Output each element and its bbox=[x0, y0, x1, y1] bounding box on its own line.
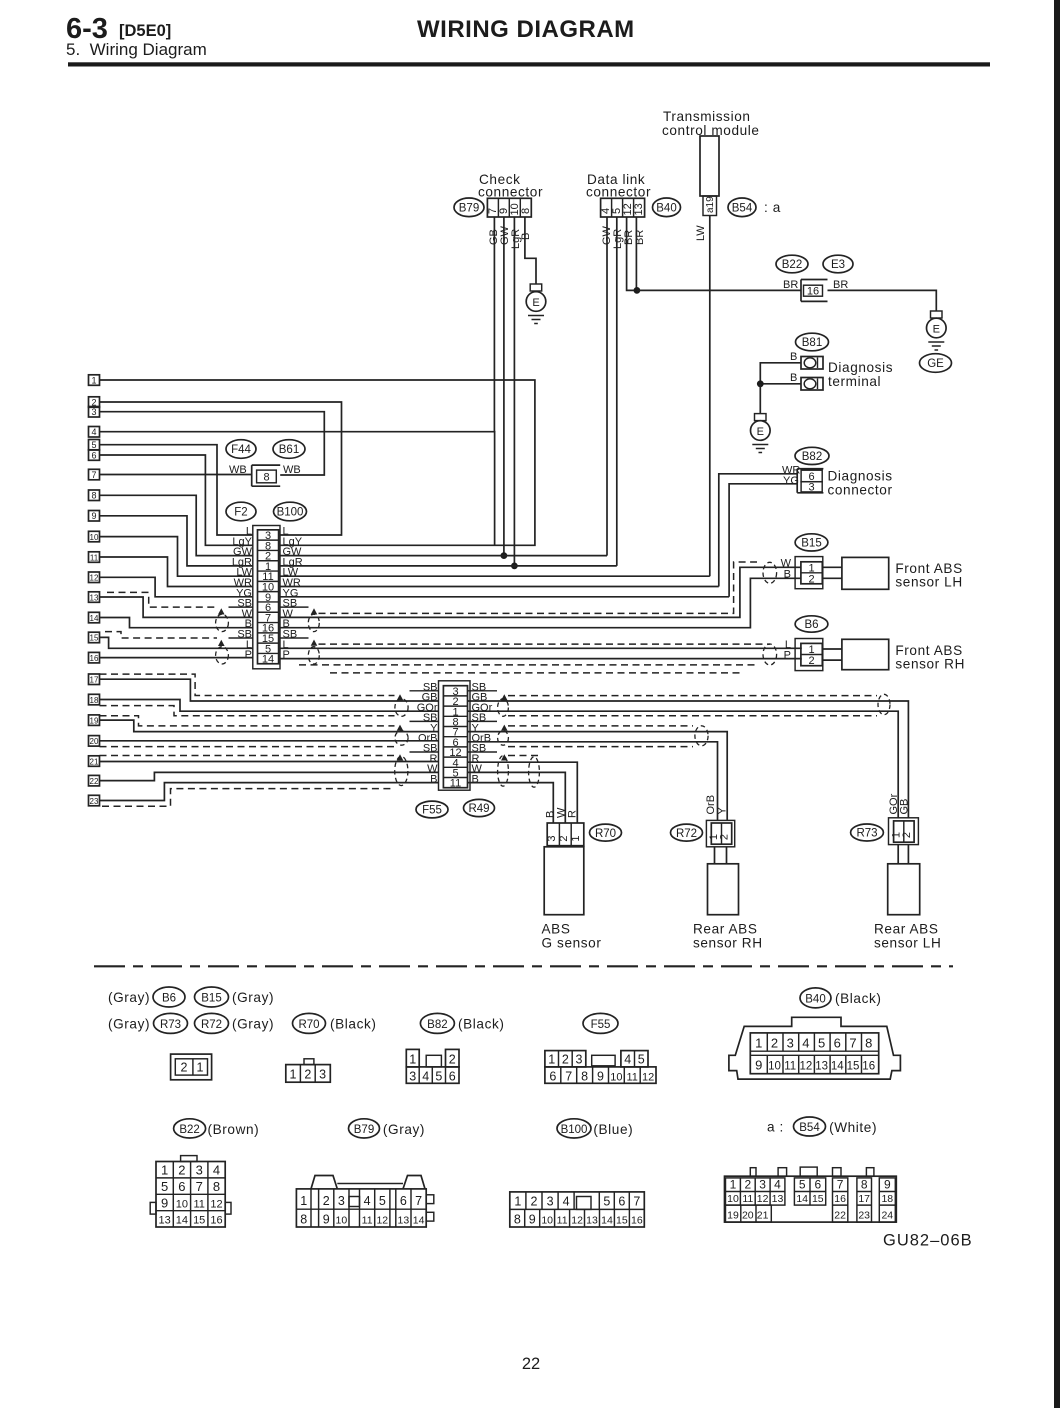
svg-text:5: 5 bbox=[799, 1178, 806, 1192]
svg-text:9: 9 bbox=[755, 1058, 762, 1073]
svg-text:R70: R70 bbox=[298, 1019, 319, 1031]
row WR right side to B82 bbox=[280, 586, 719, 588]
terminal box 4 bbox=[89, 427, 100, 438]
svg-text:11: 11 bbox=[90, 553, 99, 562]
svg-text:11: 11 bbox=[557, 1214, 568, 1226]
svg-text:12: 12 bbox=[376, 1214, 388, 1226]
wire box14 to row B left bbox=[100, 618, 253, 628]
svg-text:2: 2 bbox=[558, 835, 570, 841]
svg-text:19: 19 bbox=[90, 716, 99, 725]
shield dashed above GB right bbox=[508, 695, 877, 697]
svg-text:a :: a : bbox=[767, 1120, 784, 1135]
svg-text:10: 10 bbox=[727, 1193, 739, 1205]
svg-text:Rear ABS: Rear ABS bbox=[874, 922, 939, 937]
svg-text:13: 13 bbox=[586, 1214, 598, 1226]
connector key B79 bbox=[349, 1119, 380, 1138]
R73 pin cells 1 2 bbox=[894, 821, 915, 842]
svg-text:10: 10 bbox=[541, 1214, 553, 1226]
svg-text:12: 12 bbox=[210, 1198, 222, 1210]
wire WR from B82 to row WR bbox=[719, 474, 797, 587]
svg-text:10: 10 bbox=[768, 1061, 781, 1073]
wire BR to ground bbox=[828, 290, 937, 311]
svg-text:(Gray): (Gray) bbox=[232, 1017, 274, 1032]
svg-text:14: 14 bbox=[601, 1214, 613, 1226]
svg-text:9: 9 bbox=[884, 1178, 891, 1192]
svg-text:2: 2 bbox=[181, 1061, 188, 1075]
row SB12 left stub bbox=[410, 751, 439, 753]
wire LgR data link down to row LgR bbox=[616, 217, 618, 566]
svg-text:1: 1 bbox=[91, 375, 96, 385]
svg-text:5: 5 bbox=[603, 1194, 610, 1208]
wires B15 to sensor bbox=[823, 567, 842, 578]
shield twisted pair ellipse left 1 bbox=[216, 614, 229, 631]
wire box2 to row L right side bbox=[100, 402, 342, 535]
component rear ABS sensor RH box bbox=[708, 864, 739, 915]
wire BR pin 13 bbox=[635, 217, 637, 290]
wire terminal 1 to junction bbox=[760, 363, 801, 384]
terminal box 14 bbox=[89, 612, 100, 623]
pinout 2-pin gray connectors bbox=[171, 1054, 212, 1080]
svg-text:13: 13 bbox=[633, 203, 645, 215]
pinout F55 bbox=[545, 1051, 586, 1067]
svg-text:B15: B15 bbox=[801, 538, 821, 550]
junction BR bbox=[634, 287, 641, 294]
shield twisted pair ellipse R70 bbox=[529, 757, 540, 787]
row LgR right side bbox=[280, 565, 617, 567]
svg-text:R49: R49 bbox=[468, 803, 489, 815]
svg-text:2: 2 bbox=[809, 573, 815, 585]
wire GB from check pin 7 down joining box4 line bbox=[493, 217, 495, 432]
connector key B82 bbox=[420, 1013, 454, 1033]
shield ellipse R72 pair bbox=[695, 726, 708, 746]
terminal box 6 bbox=[89, 450, 100, 461]
svg-text:(Gray): (Gray) bbox=[108, 1017, 150, 1032]
svg-text:4: 4 bbox=[91, 427, 96, 437]
svg-text:16: 16 bbox=[834, 1193, 846, 1205]
shield arrow Y left bbox=[397, 725, 404, 731]
pinout B54 group 4 bbox=[857, 1178, 872, 1222]
B6 connector outer box bbox=[795, 639, 823, 671]
svg-text:10: 10 bbox=[610, 1071, 622, 1083]
shield dashed above R bbox=[100, 755, 395, 757]
pinout B40 pin grid bbox=[750, 1033, 878, 1074]
svg-text:B40: B40 bbox=[805, 993, 825, 1005]
shield arrow R right bbox=[501, 754, 508, 760]
junction B bbox=[757, 380, 764, 387]
svg-text:8: 8 bbox=[865, 1036, 872, 1051]
wire box22 to row W left bbox=[100, 772, 439, 780]
shield arrow GB left bbox=[397, 694, 404, 700]
svg-text:16: 16 bbox=[90, 654, 99, 663]
component front ABS sensor LH box bbox=[842, 557, 889, 589]
svg-text:14: 14 bbox=[262, 654, 274, 666]
shield dashed below P bbox=[299, 664, 759, 666]
shield twisted pair ellipse right B bbox=[498, 731, 509, 745]
wire box23 to row B left bbox=[100, 783, 439, 801]
svg-text:2: 2 bbox=[719, 834, 731, 840]
svg-text:GU82–06B: GU82–06B bbox=[883, 1232, 973, 1250]
svg-text:B22: B22 bbox=[782, 259, 802, 271]
svg-text:(Brown): (Brown) bbox=[208, 1122, 260, 1137]
shield dashed box19 bbox=[100, 716, 395, 726]
svg-text:8: 8 bbox=[514, 1212, 521, 1226]
svg-text:12: 12 bbox=[757, 1193, 769, 1205]
row Y right to R72 bbox=[468, 732, 728, 821]
svg-text:8: 8 bbox=[581, 1069, 588, 1083]
svg-text:OrB: OrB bbox=[705, 795, 717, 815]
svg-text:7: 7 bbox=[415, 1194, 422, 1208]
connector B22 bbox=[776, 255, 808, 273]
svg-text:1: 1 bbox=[755, 1036, 762, 1051]
row SB8 right stub bbox=[468, 720, 498, 722]
connector key F55 bbox=[583, 1013, 618, 1033]
svg-text:[D5E0]: [D5E0] bbox=[119, 22, 171, 40]
svg-text:R: R bbox=[567, 810, 579, 818]
B15 connector outer box bbox=[795, 557, 823, 589]
pinout B22 grid bbox=[156, 1162, 225, 1228]
svg-text:5: 5 bbox=[435, 1069, 442, 1083]
connector key R72 bbox=[195, 1013, 229, 1033]
svg-text:2: 2 bbox=[744, 1178, 751, 1192]
shield twisted pair ellipse left A bbox=[395, 699, 408, 717]
terminal box 20 bbox=[89, 736, 100, 747]
pinout B22 top tab bbox=[181, 1156, 197, 1162]
svg-text:4: 4 bbox=[802, 1036, 809, 1051]
svg-text:B: B bbox=[784, 568, 791, 580]
shield arrow Y right bbox=[501, 725, 508, 731]
svg-text:22: 22 bbox=[834, 1209, 846, 1221]
svg-text:11: 11 bbox=[784, 1061, 796, 1073]
svg-text:8: 8 bbox=[520, 208, 532, 214]
svg-text:(White): (White) bbox=[829, 1120, 877, 1135]
row YG right side to B82 bbox=[280, 596, 729, 598]
svg-text:E: E bbox=[532, 297, 539, 309]
pinout B40 body bbox=[729, 1017, 901, 1079]
connector B6 bbox=[795, 616, 828, 632]
svg-text:3: 3 bbox=[759, 1178, 766, 1192]
svg-text:8: 8 bbox=[263, 472, 269, 484]
svg-text:21: 21 bbox=[90, 757, 99, 766]
svg-text:14: 14 bbox=[90, 614, 99, 623]
svg-text:8: 8 bbox=[300, 1212, 307, 1226]
svg-text:B54: B54 bbox=[732, 203, 753, 215]
pinout R70 bbox=[304, 1059, 314, 1065]
wire box1 to row LgY right side bbox=[100, 380, 535, 545]
svg-text:1: 1 bbox=[161, 1163, 168, 1178]
svg-text:18: 18 bbox=[90, 696, 99, 705]
svg-text:12: 12 bbox=[642, 1071, 654, 1083]
shield arrow SB left bbox=[218, 608, 225, 614]
row B right to R70 bbox=[468, 783, 554, 823]
svg-text:11: 11 bbox=[626, 1071, 637, 1083]
wire box18 to row GOr left bbox=[100, 700, 439, 712]
svg-text:10: 10 bbox=[336, 1214, 348, 1226]
svg-text:5: 5 bbox=[91, 440, 96, 450]
svg-text:2: 2 bbox=[531, 1194, 538, 1208]
wire terminal 2 to junction bbox=[760, 383, 801, 385]
svg-text:3: 3 bbox=[196, 1163, 203, 1178]
svg-text:B6: B6 bbox=[804, 619, 818, 631]
shield ellipse R73 pair bbox=[878, 694, 890, 714]
connector key B100 bbox=[557, 1119, 591, 1138]
pinout B82 bbox=[406, 1049, 419, 1067]
terminal box 11 bbox=[89, 552, 100, 563]
terminal box 18 bbox=[89, 694, 100, 705]
shield twisted pair ellipse left B bbox=[395, 731, 408, 745]
svg-text:6: 6 bbox=[814, 1178, 821, 1192]
svg-text:sensor LH: sensor LH bbox=[895, 575, 962, 590]
shield arrow R left bbox=[397, 754, 404, 760]
svg-text:E: E bbox=[757, 426, 764, 438]
wire box7 WB to joint connector 8 left bbox=[100, 474, 252, 476]
shield dashed box17 bbox=[100, 674, 395, 695]
svg-text:23: 23 bbox=[858, 1209, 870, 1221]
svg-text:Diagnosis: Diagnosis bbox=[828, 469, 893, 484]
svg-text:Transmission: Transmission bbox=[663, 109, 751, 124]
svg-text:9: 9 bbox=[597, 1069, 604, 1083]
svg-text:4: 4 bbox=[364, 1194, 371, 1208]
svg-text:21: 21 bbox=[757, 1209, 769, 1221]
connector B100 bbox=[274, 502, 307, 521]
wire BR to joint connector 16 bbox=[637, 289, 801, 291]
svg-text:5: 5 bbox=[161, 1179, 168, 1194]
connector F2 bbox=[226, 502, 256, 521]
connector F55 bbox=[416, 801, 448, 818]
svg-text:B82: B82 bbox=[427, 1019, 447, 1031]
svg-text:B40: B40 bbox=[656, 203, 676, 215]
row LW right side to TCM wire bbox=[280, 575, 710, 577]
svg-text:B: B bbox=[472, 773, 479, 785]
svg-text:3: 3 bbox=[319, 1068, 326, 1082]
svg-text:(Blue): (Blue) bbox=[593, 1122, 633, 1137]
svg-text:15: 15 bbox=[90, 634, 99, 643]
svg-text:16: 16 bbox=[807, 286, 819, 298]
svg-text:8: 8 bbox=[861, 1178, 868, 1192]
wire box21 to row R left bbox=[100, 761, 439, 763]
pinout B22 side tabs bbox=[150, 1202, 156, 1214]
shield drain dashed to row SB2 left bbox=[105, 632, 217, 638]
svg-text:(Black): (Black) bbox=[330, 1017, 377, 1032]
section divider dash-dot line bbox=[94, 965, 953, 967]
svg-text:15: 15 bbox=[847, 1061, 860, 1073]
svg-text:10: 10 bbox=[176, 1198, 188, 1210]
svg-text:11: 11 bbox=[362, 1214, 373, 1226]
ground E check connector bbox=[530, 284, 542, 291]
terminal box 10 bbox=[89, 531, 100, 542]
svg-text:13: 13 bbox=[772, 1193, 784, 1205]
svg-text:5: 5 bbox=[638, 1052, 645, 1066]
shield arrow right SB2 bbox=[311, 640, 318, 646]
svg-text:(Black): (Black) bbox=[458, 1017, 505, 1032]
component rear ABS sensor LH box bbox=[888, 864, 920, 915]
svg-text:13: 13 bbox=[398, 1214, 410, 1226]
terminal box 15 bbox=[89, 632, 100, 643]
svg-text:4: 4 bbox=[563, 1194, 570, 1208]
row W right to R70 bbox=[468, 772, 566, 823]
joint connector 16 bbox=[801, 280, 828, 302]
terminal box 5 bbox=[89, 440, 100, 451]
wire B from check pin 8 to ground bbox=[525, 217, 536, 284]
wire box10 to row LW left bbox=[100, 537, 253, 577]
wires R73 to sensor bbox=[898, 845, 908, 864]
wire junction to ground bbox=[759, 384, 761, 414]
row R right to R70 bbox=[468, 762, 578, 823]
svg-text:F55: F55 bbox=[591, 1019, 611, 1031]
connector B81 bbox=[796, 333, 829, 351]
svg-text:2: 2 bbox=[178, 1163, 185, 1178]
svg-text:P: P bbox=[784, 649, 791, 661]
svg-text:connector: connector bbox=[828, 483, 893, 498]
terminal box 22 bbox=[89, 775, 100, 786]
svg-text:2: 2 bbox=[562, 1052, 569, 1066]
svg-text:12: 12 bbox=[90, 574, 99, 583]
svg-text:B: B bbox=[520, 233, 532, 240]
svg-text:B79: B79 bbox=[459, 203, 479, 215]
wire box9 to row LgR left bbox=[100, 516, 253, 566]
svg-text:(Gray): (Gray) bbox=[232, 990, 274, 1005]
row GB right to R73 bbox=[468, 701, 909, 818]
F55 left wire labels bbox=[417, 682, 438, 786]
svg-text:12: 12 bbox=[800, 1061, 813, 1073]
terminal box 21 bbox=[89, 756, 100, 767]
TCM connector pin a19 bbox=[703, 196, 717, 216]
svg-text:15: 15 bbox=[193, 1215, 205, 1227]
connector B15 bbox=[795, 534, 828, 551]
B15 pin cells 1 2 bbox=[801, 562, 822, 584]
pinout B54 group 3 bbox=[833, 1178, 848, 1222]
wire box16 to row P left bbox=[100, 657, 253, 659]
terminal box 7 bbox=[89, 469, 100, 480]
wire box20 to row OrB left bbox=[100, 740, 439, 742]
svg-text:4: 4 bbox=[624, 1052, 631, 1066]
svg-text:BR: BR bbox=[783, 279, 798, 291]
svg-text:connector: connector bbox=[478, 185, 543, 200]
terminal box 19 bbox=[89, 715, 100, 726]
svg-text:7: 7 bbox=[633, 1194, 640, 1208]
row SB right stub bbox=[280, 606, 309, 608]
svg-text:R73: R73 bbox=[856, 828, 877, 840]
B100 right wire labels bbox=[283, 526, 303, 662]
svg-text:6: 6 bbox=[178, 1179, 185, 1194]
data link connector pin cells 4 5 12 13 bbox=[601, 198, 645, 217]
wire box12 to row YG left bbox=[100, 577, 253, 597]
connector key R70 bbox=[293, 1013, 326, 1033]
svg-text:1: 1 bbox=[570, 835, 582, 841]
svg-text:10: 10 bbox=[90, 533, 99, 542]
svg-text:B79: B79 bbox=[354, 1124, 374, 1136]
component front ABS sensor RH box bbox=[842, 639, 889, 669]
svg-text:B22: B22 bbox=[179, 1124, 199, 1136]
transmission control module U-TCM body bbox=[700, 136, 719, 196]
shield dashed box23 bbox=[102, 789, 395, 807]
svg-text:Y: Y bbox=[717, 807, 729, 815]
F55/R49 connector outer box bbox=[439, 681, 471, 790]
svg-text:B61: B61 bbox=[279, 444, 299, 456]
svg-text:6: 6 bbox=[91, 450, 96, 460]
svg-text:Rear ABS: Rear ABS bbox=[693, 922, 758, 937]
F55/R49 pin column cells bbox=[443, 686, 467, 788]
shield dashed L/P pair to B6 bbox=[319, 643, 771, 645]
shield dashed return bbox=[330, 672, 741, 674]
svg-text:B100: B100 bbox=[277, 507, 304, 519]
svg-text:23: 23 bbox=[90, 797, 99, 806]
svg-text:18: 18 bbox=[881, 1193, 893, 1205]
svg-text:R70: R70 bbox=[595, 828, 616, 840]
svg-text:B54: B54 bbox=[799, 1122, 820, 1134]
svg-text:R73: R73 bbox=[160, 1019, 181, 1031]
row SB top right stub bbox=[468, 690, 498, 692]
svg-text:24: 24 bbox=[881, 1209, 893, 1221]
wire box19 to row Y left bbox=[100, 720, 439, 732]
svg-text:1: 1 bbox=[514, 1194, 521, 1208]
pinout B54 top tabs bbox=[750, 1168, 756, 1177]
row P right to B6 pin 2 bbox=[280, 659, 801, 660]
svg-text:7: 7 bbox=[91, 470, 96, 480]
pinout B54 outer box bbox=[725, 1176, 897, 1222]
svg-text:B15: B15 bbox=[201, 992, 221, 1004]
svg-text:17: 17 bbox=[90, 676, 99, 685]
connector key R73 bbox=[154, 1013, 188, 1033]
row SB8 left stub bbox=[410, 720, 439, 722]
connector R73 bbox=[851, 824, 884, 841]
R70 pin cells 3 2 1 bbox=[547, 823, 584, 846]
svg-text:12: 12 bbox=[571, 1214, 583, 1226]
terminal box 3 bbox=[89, 407, 100, 418]
wire box13 to row W left bbox=[100, 597, 253, 617]
svg-text:6: 6 bbox=[834, 1036, 841, 1051]
wires B6 to sensor bbox=[823, 649, 842, 660]
svg-text:19: 19 bbox=[727, 1209, 739, 1221]
svg-text:BR: BR bbox=[833, 279, 848, 291]
pinout B54 group 1 bbox=[726, 1178, 785, 1205]
pinout B54 group 2 bbox=[794, 1178, 825, 1205]
svg-text:9: 9 bbox=[91, 511, 96, 521]
svg-text:8: 8 bbox=[213, 1179, 220, 1194]
svg-text:GB: GB bbox=[899, 799, 911, 815]
svg-text:1: 1 bbox=[300, 1194, 307, 1208]
R73 connector outer box bbox=[889, 818, 919, 845]
svg-text:11: 11 bbox=[193, 1198, 204, 1210]
svg-text:3: 3 bbox=[409, 1069, 416, 1083]
svg-text:14: 14 bbox=[413, 1214, 425, 1226]
svg-text:(Gray): (Gray) bbox=[108, 990, 150, 1005]
row L right to B6 pin 1 bbox=[280, 647, 801, 650]
svg-text:14: 14 bbox=[831, 1061, 844, 1073]
svg-text:F44: F44 bbox=[231, 444, 251, 456]
svg-text:2: 2 bbox=[901, 832, 913, 838]
svg-text:connector: connector bbox=[586, 185, 651, 200]
connector key B22 bbox=[174, 1119, 206, 1138]
svg-text:2: 2 bbox=[304, 1068, 311, 1082]
terminal box 23 bbox=[89, 795, 100, 806]
component ABS G sensor box bbox=[544, 847, 584, 915]
ground GE oval bbox=[920, 354, 952, 373]
svg-text:sensor RH: sensor RH bbox=[895, 657, 965, 672]
shield twisted pair ellipse right C bbox=[498, 756, 509, 786]
svg-text:sensor LH: sensor LH bbox=[874, 935, 941, 950]
svg-text:9: 9 bbox=[323, 1212, 330, 1226]
terminal box 2 bbox=[89, 397, 100, 408]
svg-text:3: 3 bbox=[576, 1052, 583, 1066]
svg-text:ABS: ABS bbox=[542, 922, 571, 937]
row SB2 right stub bbox=[280, 637, 309, 639]
svg-text:11: 11 bbox=[742, 1193, 753, 1205]
svg-text:P: P bbox=[245, 649, 252, 661]
shield dashed below OrB right bbox=[508, 746, 693, 748]
svg-text:B: B bbox=[790, 351, 797, 363]
svg-text:4: 4 bbox=[422, 1069, 429, 1083]
diagnosis connector cells 5 3 bbox=[797, 469, 823, 493]
